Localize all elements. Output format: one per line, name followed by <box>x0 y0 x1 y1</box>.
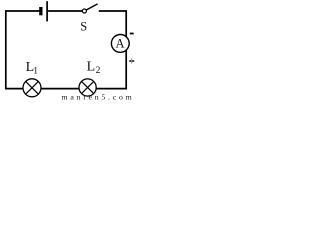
svg-text:L: L <box>87 60 96 75</box>
wire top-left <box>5 10 40 12</box>
svg-text:S: S <box>80 19 87 33</box>
battery <box>39 1 47 21</box>
wire left vertical <box>5 10 7 89</box>
switch S <box>80 4 97 33</box>
svg-text:1: 1 <box>33 67 38 77</box>
wire switch to top-right corner down to ammeter <box>99 11 126 37</box>
lamp L1 <box>23 60 41 97</box>
terminal + mark <box>129 60 134 62</box>
wire ammeter to bottom-right corner <box>96 50 126 88</box>
lamp L2 <box>79 60 101 97</box>
svg-text:2: 2 <box>96 66 101 76</box>
terminal - mark <box>130 33 134 35</box>
svg-text:A: A <box>116 37 125 51</box>
wire battery to switch <box>48 10 82 12</box>
wire bottom-left <box>5 88 23 90</box>
ammeter A <box>111 34 134 64</box>
svg-text:manfen5.com: manfen5.com <box>62 93 135 100</box>
wire between lamps <box>41 88 79 90</box>
